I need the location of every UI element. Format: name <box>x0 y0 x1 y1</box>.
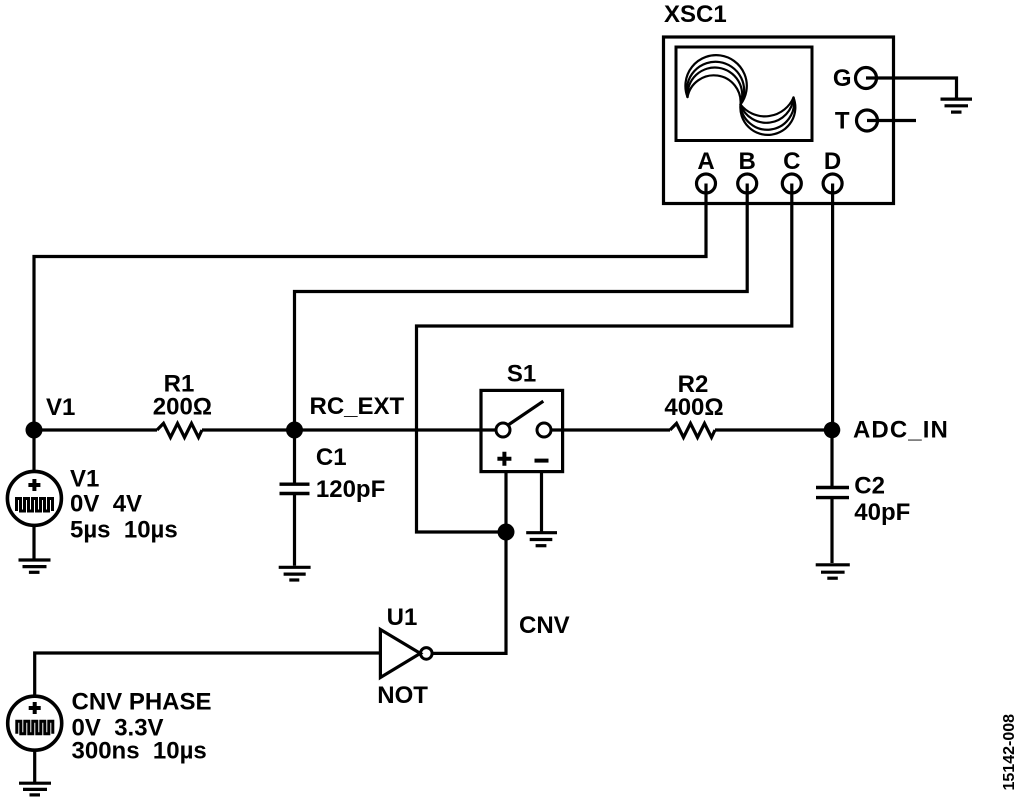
svg-text:40pF: 40pF <box>854 499 910 526</box>
svg-text:C2: C2 <box>854 473 885 500</box>
svg-text:CNV: CNV <box>519 612 570 639</box>
source CNV PHASE circle <box>8 696 62 750</box>
svg-text:400Ω: 400Ω <box>664 394 723 421</box>
switch S1 left contact <box>496 423 510 437</box>
resistor R1 zigzag <box>157 423 202 437</box>
capacitor C2 plates <box>816 488 849 498</box>
source V1 top lead <box>32 430 35 471</box>
svg-text:U1: U1 <box>387 604 418 631</box>
node CNV junction dot <box>498 524 515 541</box>
svg-text:300ns 10µs: 300ns 10µs <box>72 738 207 765</box>
source CNV PHASE pulse glyph <box>17 721 53 734</box>
source CNV PHASE plus mark <box>29 702 41 714</box>
switch S1 right contact <box>537 423 551 437</box>
inverter U1 bubble <box>421 648 433 660</box>
svg-text:200Ω: 200Ω <box>153 394 212 421</box>
ground at S1 <box>526 533 557 546</box>
ground at C1 <box>279 567 311 580</box>
svg-text:15142-008: 15142-008 <box>1001 714 1018 791</box>
pin circle G <box>856 68 877 89</box>
ground at CNV PHASE <box>19 783 51 795</box>
ground at G pin <box>941 99 973 112</box>
pin circle D <box>823 174 842 193</box>
wire S1 to R2 <box>551 428 670 431</box>
oscilloscope XSC1 body box <box>664 37 894 204</box>
wire scope C to CNV junction <box>417 184 792 533</box>
capacitor C1 bottom lead <box>293 495 296 566</box>
svg-text:S1: S1 <box>507 361 536 388</box>
svg-text:NOT: NOT <box>377 682 428 709</box>
wire main rail left (V1 to S1) <box>34 428 157 431</box>
wire R1 to S1 <box>202 428 497 431</box>
node V1 junction dot <box>26 422 43 439</box>
wire G pin to ground <box>866 78 957 98</box>
svg-text:A: A <box>697 148 714 175</box>
pin circle C <box>782 174 801 193</box>
ground at C2 <box>816 565 850 578</box>
svg-text:5µs 10µs: 5µs 10µs <box>70 517 178 544</box>
svg-text:C: C <box>783 148 800 175</box>
wire NOT output to CNV junction <box>432 532 506 653</box>
svg-text:D: D <box>824 148 841 175</box>
svg-text:V1: V1 <box>70 466 99 493</box>
source V1 plus mark <box>28 479 40 491</box>
wire S1 plus pin to CNV junction <box>504 472 507 532</box>
svg-text:V1: V1 <box>46 394 75 421</box>
wire T pin stub <box>867 119 916 122</box>
oscilloscope screen box <box>676 47 812 141</box>
wire scope A to V1 node <box>34 184 706 431</box>
oscilloscope screen waveform <box>685 55 795 135</box>
svg-text:XSC1: XSC1 <box>664 1 727 28</box>
node RC_EXT junction dot <box>286 422 303 439</box>
capacitor C1 plates <box>280 484 310 493</box>
svg-text:120pF: 120pF <box>316 476 385 503</box>
svg-text:RC_EXT: RC_EXT <box>310 393 405 420</box>
switch S1 minus mark <box>535 459 549 463</box>
svg-text:C1: C1 <box>316 444 347 471</box>
svg-text:B: B <box>739 148 756 175</box>
wire R2 to ADC_IN node <box>715 428 832 431</box>
svg-text:T: T <box>835 108 850 135</box>
switch S1 plus mark <box>497 452 511 466</box>
wire CNV PHASE to NOT input <box>35 653 381 696</box>
source V1 circle <box>7 471 61 525</box>
capacitor C2 bottom lead <box>830 499 833 563</box>
wire S1 minus pin to ground <box>540 472 543 532</box>
wire scope D to ADC_IN <box>831 184 834 431</box>
svg-text:G: G <box>833 65 852 92</box>
source V1 pulse glyph <box>17 499 53 512</box>
pin circle T <box>857 110 878 131</box>
wire scope B to RC_EXT <box>295 184 748 431</box>
svg-text:ADC_IN: ADC_IN <box>853 417 949 444</box>
pin circle A <box>697 174 716 193</box>
source CNV PHASE bottom lead <box>33 750 36 782</box>
svg-text:0V 4V: 0V 4V <box>70 491 142 518</box>
capacitor C2 top lead <box>830 430 833 486</box>
capacitor C1 top lead <box>293 430 296 483</box>
switch S1 box <box>481 390 563 471</box>
svg-text:CNV PHASE: CNV PHASE <box>72 689 212 716</box>
inverter U1 triangle <box>380 630 420 678</box>
ground at V1 <box>19 560 51 572</box>
switch S1 lever <box>507 401 543 425</box>
source V1 bottom lead <box>32 525 35 559</box>
pin circle B <box>738 174 757 193</box>
resistor R2 zigzag <box>670 423 715 437</box>
node ADC_IN junction dot <box>824 422 841 439</box>
